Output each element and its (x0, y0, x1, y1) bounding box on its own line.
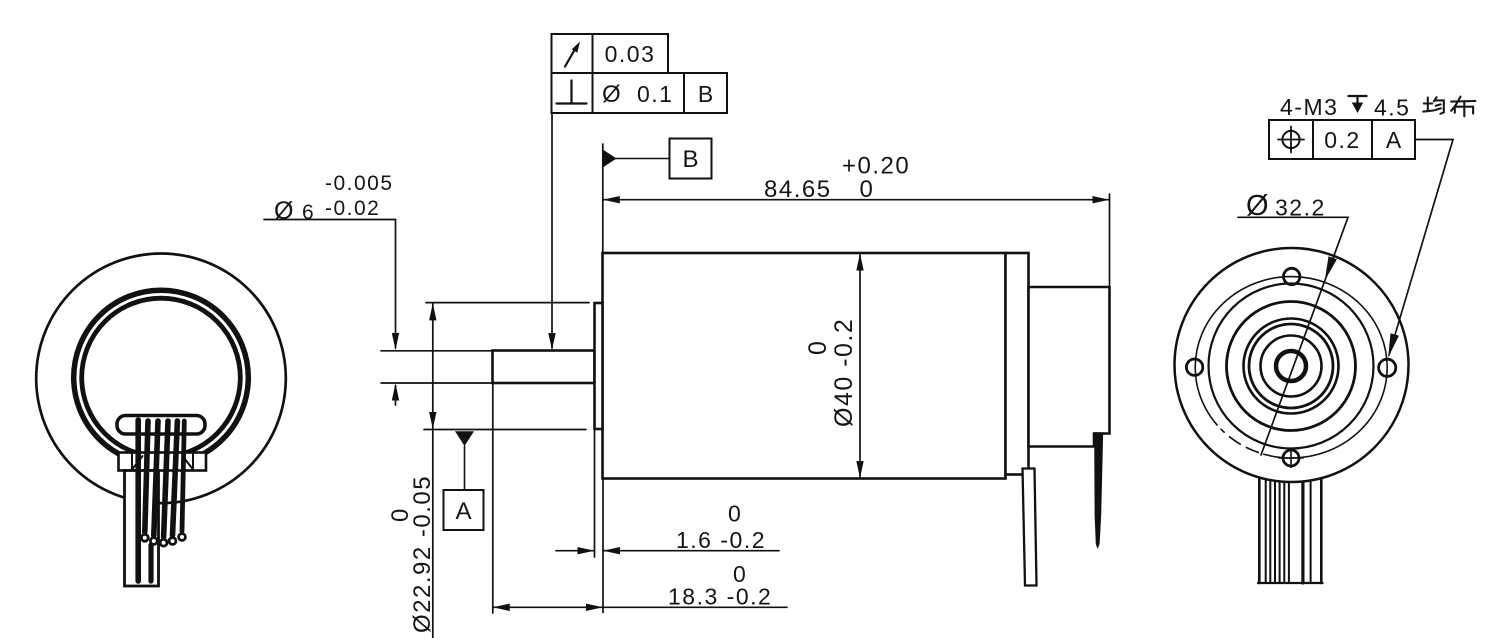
svg-text:84.65: 84.65 (764, 176, 832, 203)
mounting hole bottom with position cross (1283, 450, 1299, 466)
extension line body left face (602, 144, 604, 253)
bolt circle (1195, 277, 1387, 458)
FCF perpendicularity frame (552, 73, 728, 113)
rear circle r42 (1249, 324, 1333, 408)
connector pill (117, 416, 205, 435)
wire 5 (173, 421, 178, 535)
extension line 84.65 right (1109, 194, 1111, 286)
wire 2 (145, 421, 148, 532)
FCF leader line (551, 113, 553, 348)
dimension 18.3 (493, 606, 787, 608)
motor body outline (603, 253, 1006, 479)
rear boss (1029, 287, 1110, 447)
front pilot boss (595, 303, 603, 429)
runout symbol (565, 48, 576, 67)
dimension line dia 22.92 (432, 303, 434, 638)
svg-text:-0.02: -0.02 (325, 197, 380, 220)
extension line pilot face (594, 429, 596, 557)
svg-text:0: 0 (387, 507, 414, 522)
mounting hole left (1186, 359, 1202, 375)
svg-text:4-M3: 4-M3 (1280, 94, 1338, 120)
ribbon cable stripes (1258, 455, 1323, 583)
leader dia 32.2 (1238, 216, 1348, 218)
mounting hole right (1379, 359, 1396, 376)
svg-text:Ø40 -0.2: Ø40 -0.2 (830, 318, 858, 427)
rear circle r82 (1209, 284, 1374, 449)
rear circle r30 (1261, 336, 1322, 397)
rear white wire (1023, 469, 1037, 586)
svg-text:0: 0 (804, 340, 832, 355)
rear circle r64 (1227, 302, 1356, 431)
datum A symbol (455, 431, 474, 446)
wire 6 (182, 421, 184, 531)
rear center hole (1276, 351, 1306, 381)
svg-text:Ø: Ø (1246, 190, 1269, 222)
mounting hole top (1284, 268, 1300, 284)
datum B symbol (603, 150, 617, 168)
rear circle r47 (1244, 319, 1339, 414)
svg-text:18.3 -0.2: 18.3 -0.2 (668, 584, 772, 610)
dimension 1.6 (556, 550, 595, 552)
FCF position frame (1269, 120, 1415, 159)
leader dia 6 (264, 219, 396, 221)
leader 4-M3 (1389, 140, 1453, 356)
svg-text:6: 6 (302, 201, 314, 224)
svg-text:0.03: 0.03 (605, 41, 656, 67)
svg-text:+0.20: +0.20 (842, 153, 910, 180)
rear black wire (1094, 432, 1103, 549)
extension line boss bottom / datum A line (424, 429, 586, 431)
inner ring outer (74, 290, 249, 465)
svg-text:0: 0 (728, 501, 742, 527)
depth symbol (1349, 95, 1367, 97)
inner ring inner (82, 298, 241, 457)
wire 3 (154, 421, 158, 535)
connector flange (119, 453, 207, 471)
svg-text:-0.005: -0.005 (325, 172, 394, 195)
svg-text:B: B (682, 146, 698, 173)
extension line boss top (426, 302, 589, 304)
outer circle (36, 253, 286, 503)
position symbol (1282, 131, 1299, 148)
svg-text:0.1: 0.1 (637, 81, 673, 107)
bolt circle hidden arc (1219, 427, 1262, 454)
extension line shaft bottom (381, 382, 492, 384)
wire 1b (148, 545, 153, 581)
FCF runout frame (552, 34, 669, 73)
svg-text:1.6 -0.2: 1.6 -0.2 (676, 527, 766, 553)
svg-text:Ø: Ø (602, 81, 621, 108)
rear outer circle (1175, 248, 1409, 482)
dimension line 84.65 (603, 199, 1110, 201)
perpendicularity symbol (557, 102, 587, 104)
svg-text:4.5: 4.5 (1374, 95, 1410, 121)
svg-text:0.2: 0.2 (1324, 127, 1360, 153)
svg-text:B: B (698, 81, 713, 107)
shaft (493, 351, 595, 384)
svg-text:A: A (1386, 127, 1402, 153)
cable sleeve tube (125, 471, 159, 587)
rear end cap (1006, 253, 1029, 475)
svg-text:Ø22.92 -0.05: Ø22.92 -0.05 (409, 475, 436, 633)
wire 1 (135, 420, 141, 581)
extension line shaft face lower (492, 383, 494, 613)
extension line shaft top (381, 350, 492, 352)
dimension line dia 40 (859, 254, 861, 479)
extension line body face lower (602, 479, 604, 613)
wire 4 (164, 421, 168, 537)
svg-text:32.2: 32.2 (1275, 195, 1326, 221)
svg-text:0: 0 (860, 176, 875, 203)
label junbu (CJK) (1423, 97, 1475, 117)
svg-text:A: A (455, 498, 471, 525)
svg-text:Ø: Ø (274, 197, 293, 225)
